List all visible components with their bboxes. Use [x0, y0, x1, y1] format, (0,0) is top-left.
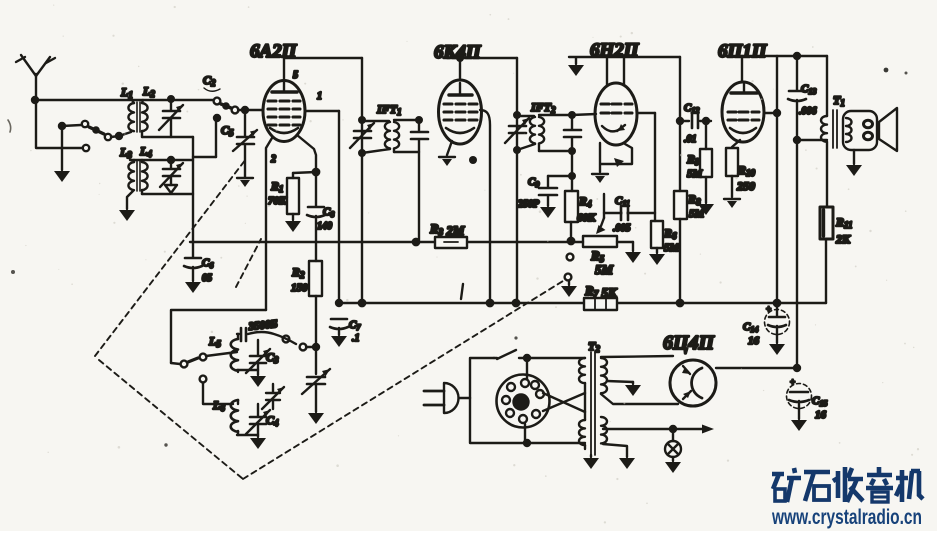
coil L3	[128, 160, 134, 190]
label IFT1	[376, 102, 402, 117]
tube 6N2P envelope U3	[595, 83, 637, 145]
6C4P cathode arc	[692, 368, 702, 398]
label L6	[212, 398, 225, 413]
tube 6K4P cathode ground	[447, 141, 452, 155]
capacitor C13	[788, 53, 806, 368]
svg-text:16: 16	[748, 335, 760, 347]
label L4	[139, 144, 152, 159]
wire O2 to L5	[206, 352, 237, 356]
label T2	[588, 339, 600, 354]
core lines T-RF1	[137, 102, 140, 132]
wire O5 to tuning line	[306, 344, 319, 350]
IFT2 winding secondary	[539, 115, 572, 151]
label R8	[687, 192, 706, 220]
tube 6A2P cathode arc	[270, 128, 298, 133]
svg-text:5: 5	[293, 70, 298, 81]
ground G12	[846, 165, 862, 176]
label R4	[577, 194, 596, 224]
svg-text:16: 16	[815, 409, 827, 421]
watermark url	[771, 506, 922, 529]
wire to T2 primary top	[524, 355, 585, 361]
tube 6C4P rectifier U5	[670, 360, 716, 406]
potentiometer R5	[583, 218, 633, 251]
wire L3L4 top	[130, 159, 193, 161]
trimmer C-pad	[262, 384, 284, 409]
label R6	[663, 226, 681, 254]
IFT1 winding primary	[362, 121, 390, 153]
HV top lead to rectifier plate	[601, 356, 673, 357]
coil L6	[231, 400, 238, 435]
wire antenna to L1 top	[35, 99, 213, 101]
label C2	[203, 73, 220, 91]
label C7	[349, 319, 361, 344]
ground G-CT1	[308, 413, 324, 424]
transformer T1 primary	[821, 56, 827, 207]
switch contact V1	[567, 254, 574, 261]
ground V stub	[568, 281, 570, 285]
filament bottom lead	[603, 444, 627, 457]
tube 6K4P top lead	[457, 55, 463, 80]
wire y310 to oscillator	[171, 310, 266, 363]
oscillator switch contact O1	[171, 361, 187, 368]
capacitor C11	[621, 205, 628, 221]
tube 6K4P cathode arc	[446, 128, 474, 133]
pin 5 label	[293, 70, 298, 81]
ground wire left	[59, 123, 81, 170]
dashed gang line A	[95, 159, 246, 356]
svg-text:250P: 250P	[517, 199, 540, 210]
B+ segment stage2	[447, 57, 517, 59]
B+ segment stage3	[569, 56, 680, 58]
svg-text:2К: 2К	[835, 232, 851, 246]
tube 6K4P anode bar	[449, 83, 472, 95]
HV bottom lead	[601, 394, 678, 404]
svg-text:.1: .1	[352, 333, 360, 344]
svg-text:60К: 60К	[577, 212, 596, 224]
label L1	[120, 85, 133, 100]
trimmer capacitor C5	[233, 113, 257, 177]
label C3	[266, 350, 279, 365]
capacitor C12	[680, 114, 711, 128]
label C6	[202, 257, 213, 284]
coil L4	[142, 160, 148, 194]
node r2b	[487, 300, 493, 306]
ground G7	[649, 254, 665, 265]
selector cross wires	[543, 393, 585, 412]
tube 6P1P cathode arc	[730, 128, 756, 133]
trimmer capacitor C4a across L4	[160, 157, 183, 193]
IFT1 winding secondary	[394, 120, 419, 152]
dashed line D	[99, 360, 243, 479]
coil L2	[142, 100, 148, 137]
label R3	[429, 221, 465, 238]
resistor R9	[700, 118, 712, 203]
trimmer C4	[237, 404, 270, 437]
ground G-C7	[331, 336, 347, 347]
label 6N2P	[590, 40, 640, 61]
label R2	[291, 265, 308, 294]
label 6P1P	[718, 41, 768, 62]
tube 6A2P plate lead to B+	[283, 58, 285, 81]
label C5	[221, 123, 234, 138]
tube 6P1P screen wire	[764, 110, 780, 116]
resistor R3	[413, 237, 467, 248]
label C9	[517, 176, 540, 210]
transformer T2 core	[591, 352, 595, 455]
svg-text:70К: 70К	[268, 195, 287, 207]
switch contact B2	[232, 107, 239, 114]
svg-text:140: 140	[317, 221, 332, 232]
ground G-C6	[185, 282, 201, 293]
resistor R10	[726, 140, 740, 197]
label L3	[119, 145, 132, 160]
svg-text:5М: 5М	[664, 242, 681, 254]
stray dot	[469, 156, 477, 164]
resistor R1	[287, 172, 316, 220]
rail low y301	[339, 302, 826, 304]
ink speck 3	[8, 120, 15, 274]
resistor R6	[651, 221, 663, 253]
switch lever S2	[221, 103, 231, 108]
tube 6N2P top leads	[607, 57, 624, 85]
switch contact A2	[82, 121, 88, 127]
svg-text:5М: 5М	[687, 168, 704, 180]
oscillator lever	[188, 358, 198, 362]
switch contact A3	[105, 134, 111, 140]
ground G-C5	[237, 178, 253, 187]
ground G5	[568, 65, 584, 76]
tube 6A2P grids	[268, 101, 300, 125]
capacitor 3500 series	[237, 328, 296, 344]
label C4	[266, 413, 279, 428]
coil L1	[128, 100, 134, 131]
capacitor C14 electrolytic	[765, 303, 790, 343]
tube 6P1P anode bar	[731, 84, 757, 93]
capacitor C7	[330, 300, 348, 335]
wire screen B+ vertical	[776, 56, 778, 303]
svg-text:2: 2	[270, 154, 276, 165]
wire L2 bottom bus	[142, 136, 193, 138]
T2 HV secondary winding	[601, 358, 607, 393]
voltage selector socket	[497, 358, 550, 443]
label C13	[799, 83, 817, 117]
ground G4	[439, 157, 455, 166]
label 6C4P	[663, 332, 716, 354]
wire switch to 6A2P grid	[238, 107, 263, 113]
transformer T2 primary winding	[579, 358, 585, 449]
trimmer capacitor C1 across L2	[159, 96, 183, 137]
wire R8 line	[677, 57, 683, 191]
rectifier output wire	[716, 365, 800, 371]
ink speck 1	[884, 68, 889, 73]
svg-text:+: +	[766, 304, 771, 314]
node k1	[313, 169, 319, 175]
wire O3 to L6	[203, 383, 233, 404]
wire C13 to T1	[794, 137, 827, 143]
IFT2 cap right	[564, 112, 581, 154]
ground G-C9	[540, 207, 556, 218]
wire 6A2P right to x339	[305, 111, 339, 303]
ground G3	[285, 221, 301, 232]
IFT2 trimmer cap left	[505, 112, 529, 153]
ground G20	[250, 438, 266, 449]
label 6A2P	[250, 41, 298, 62]
oscillator switch contact O2	[200, 354, 207, 361]
svg-text:1: 1	[317, 91, 322, 102]
ground G8	[625, 252, 641, 263]
resistor R2	[309, 242, 322, 374]
label C11	[613, 195, 631, 234]
svg-text:6Ц4П: 6Ц4П	[663, 332, 716, 354]
ink speck 5	[514, 336, 517, 339]
HV center tap	[607, 381, 633, 384]
tube 6K4P grids	[444, 104, 477, 120]
power plug P1	[424, 383, 470, 413]
handwritten 1	[461, 284, 463, 299]
tube 6P1P top lead	[741, 56, 743, 82]
node ant junction	[32, 97, 38, 103]
ground G10	[698, 204, 714, 215]
trimmer C3	[237, 340, 270, 375]
svg-text:R7 5К: R7 5К	[584, 283, 618, 300]
switch contact V2	[565, 274, 572, 281]
ground G9	[561, 286, 577, 297]
switch contact B1	[214, 98, 221, 105]
pilot lamp	[665, 429, 681, 461]
tube 6A2P envelope U1	[263, 81, 305, 142]
svg-text:5М: 5М	[595, 262, 614, 277]
rail mid y242	[190, 241, 583, 243]
label T1	[833, 93, 845, 108]
pin 2 label	[270, 154, 276, 165]
ink speck 4	[164, 443, 167, 446]
ground G13	[769, 344, 785, 355]
tube 6P1P envelope U4	[722, 82, 764, 142]
label L2	[142, 84, 155, 99]
ground G18	[619, 458, 635, 469]
ground G2	[119, 210, 135, 221]
pin 1 label	[317, 91, 322, 102]
resistor R7	[584, 298, 617, 310]
wire L4 bottom	[142, 193, 193, 195]
label R11	[835, 215, 853, 246]
mains switch S3	[494, 350, 527, 359]
speaker ground	[853, 150, 855, 164]
svg-text:.005: .005	[613, 223, 631, 234]
ink speck 2	[905, 72, 908, 75]
tuning capacitor CT1	[302, 369, 330, 412]
label C8	[317, 206, 334, 232]
core lines T-RF2	[137, 161, 140, 191]
ground G15 core	[590, 455, 592, 457]
oscillator contact O5	[300, 344, 307, 351]
ground G6	[592, 174, 608, 183]
resistor R8	[674, 191, 687, 303]
antenna	[16, 55, 55, 100]
label R5	[590, 248, 614, 277]
ground G1	[54, 171, 70, 182]
ground G19	[250, 376, 266, 387]
tube 6N2P grids	[601, 104, 632, 113]
switch lever S1	[89, 127, 104, 134]
svg-text:R3 2М: R3 2М	[429, 221, 465, 238]
tube 6N2P cathode arc	[602, 124, 625, 131]
svg-text:6Н2П: 6Н2П	[590, 40, 640, 61]
watermark crystalradio logo	[772, 467, 923, 502]
T2 filament winding	[601, 417, 607, 443]
speaker LS1	[843, 108, 897, 151]
IFT1 cap right	[411, 117, 428, 240]
label 6K4P	[434, 42, 482, 63]
label R7	[584, 283, 618, 300]
IFT1 trimmer cap left	[350, 117, 374, 156]
tube 6A2P cathode lead left	[266, 138, 272, 310]
wire antenna down to switch contact	[36, 100, 82, 148]
B+ segment stage1	[284, 57, 362, 59]
capacitor C8	[307, 172, 325, 241]
node r2e	[774, 300, 780, 306]
node r2a	[359, 300, 365, 306]
IFT2 winding primary	[517, 116, 535, 150]
coil L5	[231, 334, 238, 372]
filament top lead with arrow	[603, 425, 714, 434]
ground G16	[625, 385, 641, 396]
wire contact to L1 bottom	[111, 132, 131, 139]
resistor R11	[820, 207, 833, 303]
wire to T2 primary bottom	[524, 440, 585, 446]
tube 6K4P plate wire	[480, 110, 490, 303]
IFT1 left line	[361, 58, 363, 302]
capacitor C15 electrolytic	[787, 377, 812, 419]
ground G14	[791, 420, 807, 431]
label C15	[812, 395, 827, 421]
ground G11	[724, 199, 740, 208]
svg-text:.01: .01	[684, 134, 697, 145]
resistor R4	[565, 151, 578, 244]
oscillator contact O4	[283, 336, 290, 343]
svg-text:05: 05	[202, 273, 212, 284]
dashed line C	[236, 239, 261, 287]
label IFT2	[530, 100, 556, 115]
tube 6N2P cathode leads	[600, 143, 632, 172]
capacitor C9	[539, 173, 575, 206]
node r2c	[513, 300, 519, 306]
wire L3 bottom to ground	[127, 191, 133, 209]
label 3500	[247, 318, 278, 333]
label L5	[208, 334, 221, 349]
svg-text:.006: .006	[799, 106, 817, 117]
node r2d	[677, 300, 683, 306]
wire C11 bus	[604, 194, 655, 218]
svg-text:150: 150	[291, 282, 308, 294]
svg-text:www.crystalradio.cn: www.crystalradio.cn	[771, 506, 922, 529]
ground G17	[665, 462, 681, 473]
B+ segment stage4	[722, 55, 827, 57]
wire IFT2 to 6N2P grid	[572, 114, 596, 115]
svg-text:+: +	[790, 377, 795, 387]
wire switch drop x216	[193, 115, 220, 157]
label R9	[686, 152, 704, 180]
svg-text:250: 250	[736, 179, 755, 193]
tube 6N2P plate wire right	[637, 113, 655, 221]
tube 6P1P grids	[728, 112, 759, 120]
label R10	[736, 163, 756, 193]
tube 6A2P lead right-bottom	[297, 135, 316, 172]
switch contact A1	[83, 145, 89, 151]
IFT2 left line	[516, 58, 518, 303]
transformer T1 core	[833, 110, 837, 148]
label C12	[684, 102, 699, 145]
wire vertical x193	[192, 137, 194, 241]
ground arrow at stage3	[575, 58, 577, 64]
tube 6K4P envelope U2	[439, 80, 482, 144]
tube 6A2P anode bar	[272, 82, 297, 92]
label C14	[743, 321, 760, 347]
label R1	[268, 179, 287, 207]
capacitor C6	[184, 242, 202, 281]
oscillator switch contact O3	[200, 376, 207, 383]
6C4P anode marks	[682, 366, 691, 399]
dashed line B	[243, 281, 563, 479]
plug wires	[470, 358, 527, 443]
